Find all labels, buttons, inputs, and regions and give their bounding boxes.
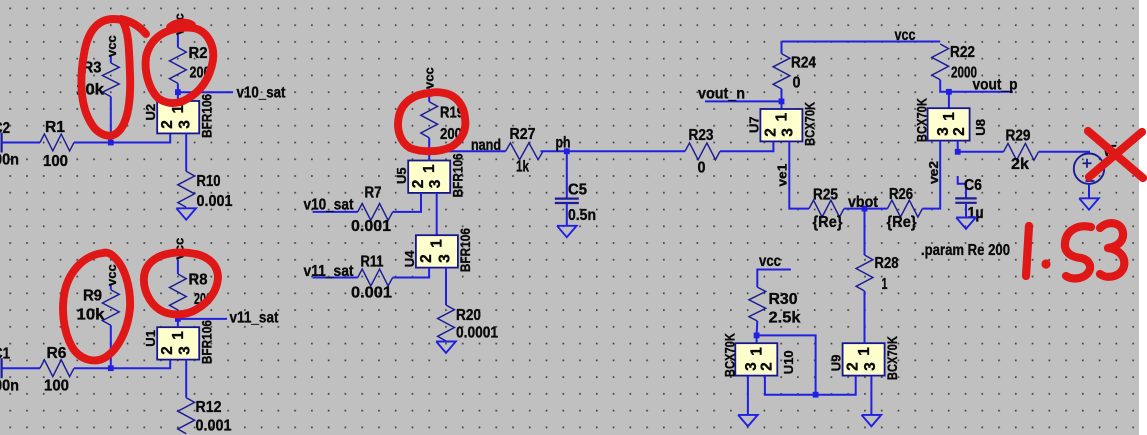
svg-text:ve2: ve2 (926, 161, 941, 184)
svg-text:U9: U9 (829, 355, 844, 372)
wire U1 pin1 (177, 319, 179, 328)
red circle annotation around R19 (398, 92, 465, 151)
svg-text:1: 1 (941, 112, 958, 121)
svg-text:R24: R24 (791, 55, 816, 72)
wire R29 to V5 (1039, 152, 1090, 154)
svg-text:U4: U4 (402, 250, 417, 267)
svg-text:100n: 100n (0, 152, 19, 169)
red handwritten digit 5 (1065, 226, 1091, 278)
resistor R26 (865, 186, 923, 231)
wire U5 pin1 (428, 151, 430, 160)
svg-text:C1: C1 (0, 346, 10, 363)
svg-text:R10: R10 (197, 173, 221, 190)
svg-text:BCX70K: BCX70K (885, 336, 900, 380)
svg-text:U5: U5 (394, 167, 409, 184)
svg-text:R30: R30 (769, 291, 798, 308)
resistor R9 with vcc (77, 285, 120, 369)
svg-text:1k: 1k (516, 159, 529, 176)
wire C2 to R1 (2, 142, 40, 144)
op-amp U4 (BFR106) (402, 228, 473, 272)
capacitor C6 (955, 176, 983, 222)
svg-text:R9: R9 (83, 288, 102, 305)
node v11_sat junction (175, 316, 181, 322)
svg-text:ph: ph (556, 135, 571, 152)
svg-text:0.001: 0.001 (197, 193, 233, 210)
ground below U10 (738, 415, 758, 426)
svg-text:vcc: vcc (895, 27, 916, 44)
svg-text:R2: R2 (189, 45, 208, 62)
svg-text:R22: R22 (950, 44, 975, 61)
svg-text:3: 3 (436, 254, 453, 263)
red handwritten digit 3 (1100, 223, 1124, 277)
wire and net label v10_sat (178, 85, 286, 102)
svg-text:BFR106: BFR106 (199, 93, 214, 137)
svg-text:R1: R1 (45, 119, 65, 136)
wire and net label v10_sat to R7 (304, 197, 358, 214)
svg-text:0.001: 0.001 (196, 418, 232, 435)
node junction vout_n at U7 pin1 (779, 99, 785, 105)
svg-text:vcc: vcc (759, 253, 781, 270)
op-amp U1 (BFR106 buffer) (143, 320, 214, 364)
wire and net label v11_sat (178, 310, 279, 327)
svg-text:1: 1 (773, 113, 790, 122)
svg-text:3: 3 (427, 179, 444, 188)
red circle annotation around R8 (144, 253, 218, 315)
resistor R12 (178, 360, 232, 435)
wire U7 pin3 down ve1 (789, 142, 809, 209)
op-amp U2 (BFR106 buffer) (143, 93, 214, 137)
svg-text:.param Re 200: .param Re 200 (921, 242, 1010, 259)
svg-text:100n: 100n (0, 378, 19, 395)
resistor R10 (178, 133, 233, 210)
resistor R27 (506, 126, 544, 176)
svg-text:ve1: ve1 (774, 164, 789, 187)
node vbot junction with label (848, 194, 878, 212)
svg-text:C2: C2 (0, 120, 10, 137)
wire R1 to U2 pin2 (74, 133, 170, 142)
svg-text:1µ: 1µ (968, 205, 984, 222)
svg-text:1: 1 (856, 347, 873, 356)
svg-text:3: 3 (780, 128, 797, 137)
wire and net label vout_p (949, 77, 1018, 94)
wire V5 to ground (1088, 184, 1090, 198)
svg-text:R20: R20 (456, 307, 481, 324)
resistor R23 (685, 127, 720, 177)
wire C1 to R6 (2, 367, 40, 369)
red handwritten dot (1041, 259, 1050, 268)
wire R7 to U5 pin2 (393, 193, 421, 212)
svg-text:3: 3 (177, 120, 194, 129)
svg-text:U2: U2 (143, 104, 158, 121)
node v10_sat junction (175, 89, 181, 95)
wire U10 pin1 stub (756, 335, 758, 343)
svg-text:2: 2 (845, 362, 862, 371)
svg-text:3: 3 (935, 127, 952, 136)
wire R6 to U1 pin2 (74, 360, 170, 368)
svg-text:R12: R12 (196, 399, 222, 416)
svg-text:R6: R6 (47, 345, 67, 362)
svg-text:2: 2 (159, 346, 176, 355)
resistor R28 (856, 209, 899, 344)
svg-text:2: 2 (951, 127, 968, 136)
capacitor C2 (partially cut at left edge) (0, 120, 19, 169)
svg-text:100: 100 (43, 153, 68, 170)
svg-text:2: 2 (762, 128, 779, 137)
ground below C5 (557, 226, 577, 237)
resistor R2 with vcc (170, 35, 211, 93)
ground below V5 (1079, 198, 1099, 209)
svg-text:3: 3 (862, 362, 879, 371)
resistor R19 with vcc (421, 89, 465, 152)
svg-text:0.0001: 0.0001 (456, 325, 498, 342)
resistor R30 (749, 270, 801, 336)
capacitor C5 (555, 151, 596, 226)
svg-text:R27: R27 (510, 126, 536, 143)
svg-text:0: 0 (698, 160, 706, 177)
svg-text:0.5n: 0.5n (568, 207, 596, 224)
svg-text:{Re}: {Re} (813, 214, 843, 231)
svg-text:vout_n: vout_n (698, 85, 745, 102)
op-amp U5 (BFR106) (394, 153, 465, 197)
svg-text:2: 2 (410, 180, 427, 189)
wire and net label v11_sat to R11 (304, 263, 358, 280)
node junction at U10 pin1 (754, 333, 760, 339)
svg-text:0.001: 0.001 (351, 218, 391, 235)
wire U5 pin3 to U4 pin1 (436, 193, 438, 235)
svg-text:2: 2 (159, 120, 176, 129)
svg-text:R23: R23 (689, 127, 714, 144)
svg-text:0.001: 0.001 (351, 285, 392, 302)
svg-text:U10: U10 (781, 350, 796, 374)
wire U2 pin1 (177, 92, 179, 101)
svg-text:v11_sat: v11_sat (230, 310, 279, 327)
wire U7 pin1 (781, 101, 783, 109)
svg-text:vcc: vcc (422, 67, 437, 89)
svg-text:2: 2 (418, 254, 435, 263)
svg-text:BCX70K: BCX70K (722, 333, 737, 377)
ground below R10 (176, 208, 196, 219)
wire U9 pin3 to ground (870, 376, 872, 415)
red circle annotation around R9 (63, 253, 130, 361)
op-amp U10 (BCX70K mirrored) (722, 333, 796, 377)
svg-text:2k: 2k (1011, 156, 1029, 173)
wire R23 to U7 pin2 (720, 142, 773, 152)
svg-text:C6: C6 (964, 177, 982, 194)
svg-text:1: 1 (429, 239, 446, 248)
svg-text:R7: R7 (365, 185, 382, 202)
svg-text:{Re}: {Re} (887, 214, 917, 231)
op-amp U8 (BCX70K mirrored) (915, 98, 989, 142)
red circle annotation around R2 (146, 28, 214, 103)
svg-text:R26: R26 (889, 186, 913, 203)
wire R25 to vbot (844, 208, 865, 210)
node ph junction with label (556, 135, 571, 155)
svg-text:vcc: vcc (104, 35, 119, 57)
wire nand net with label (429, 137, 505, 154)
svg-text:BFR106: BFR106 (450, 153, 465, 197)
svg-text:2: 2 (758, 362, 775, 371)
svg-text:1: 1 (421, 164, 438, 173)
resistor R29 (1004, 128, 1039, 174)
red handwritten digit 1 (1026, 226, 1029, 276)
op-amp U7 (BCX70K) (746, 102, 817, 146)
svg-text:BCX70K: BCX70K (915, 98, 930, 142)
wire R27 to ph node (541, 150, 567, 152)
red circle annotation around R3 (81, 19, 130, 136)
svg-text:2.5k: 2.5k (769, 310, 801, 327)
wire R11 to U4 pin2 (393, 268, 429, 278)
svg-text:R28: R28 (875, 255, 899, 272)
node nand junction at U5 pin1 (426, 148, 432, 154)
op-amp U9 (BCX70K) (829, 336, 900, 380)
svg-text:1: 1 (749, 347, 766, 356)
node junction R1/R3 (108, 140, 114, 146)
capacitor C1 (partially cut at left edge) (0, 346, 19, 395)
svg-text:3: 3 (177, 346, 194, 355)
svg-text:U7: U7 (746, 116, 761, 133)
svg-text:BFR106: BFR106 (199, 320, 214, 364)
node junction vout_p at U8 pin1 (946, 89, 952, 95)
svg-text:vcc: vcc (104, 264, 119, 286)
svg-text:1: 1 (882, 276, 888, 293)
wire U10 pin1 to U9 pin2 net (757, 335, 816, 394)
resistor R11 (351, 254, 393, 302)
ground below C6 (956, 218, 976, 229)
resistor R6 (40, 345, 74, 395)
wire U10 pin3 to ground (747, 376, 749, 415)
node junction bottom (813, 392, 819, 398)
svg-text:R25: R25 (813, 187, 838, 204)
svg-text:vout_p: vout_p (973, 77, 1018, 94)
node junction at U8 pin2 corner (955, 149, 961, 155)
svg-text:1: 1 (170, 331, 187, 340)
resistor R24 (773, 42, 816, 101)
svg-text:BFR106: BFR106 (458, 228, 473, 272)
svg-text:R29: R29 (1006, 128, 1031, 145)
resistor R22 (932, 44, 977, 92)
red circle R2 start overlap stroke (170, 23, 192, 27)
svg-text:R8: R8 (189, 272, 208, 289)
svg-text:10k: 10k (77, 307, 105, 324)
svg-text:0: 0 (793, 75, 801, 92)
wire vcc stub with label at R30 (756, 253, 791, 270)
wire and net label vout_n (698, 85, 782, 102)
resistor R1 (40, 119, 74, 170)
wire vcc rail with label (782, 27, 941, 44)
wire R26 to U8 pin3 ve2 (922, 141, 940, 209)
svg-text:R11: R11 (361, 254, 384, 271)
wire ph to R23 (567, 150, 685, 152)
svg-text:v10_sat: v10_sat (237, 85, 286, 102)
wire U8 pin2 to R29 (958, 141, 1004, 152)
node junction R6/R9 (108, 365, 114, 371)
resistor R3 with vcc (76, 56, 119, 143)
svg-text:100: 100 (44, 378, 69, 395)
voltage source V5 (1074, 143, 1117, 184)
svg-text:C5: C5 (568, 182, 587, 199)
ground below U9 (862, 415, 882, 426)
wire U8 pin1 (948, 92, 950, 109)
svg-text:v10_sat: v10_sat (304, 197, 354, 214)
svg-text:U1: U1 (143, 330, 158, 347)
svg-text:v11_sat: v11_sat (304, 263, 354, 280)
svg-text:BCX70K: BCX70K (803, 102, 818, 146)
svg-text:U8: U8 (973, 119, 988, 136)
resistor R8 with vcc (170, 260, 213, 319)
resistor R7 (351, 185, 393, 236)
red tail stroke of R3 circle (121, 19, 146, 34)
red X annotation over V5 (1088, 131, 1143, 178)
wire U10 pin2 to junction to U9 pin2 (765, 376, 856, 395)
svg-text:3: 3 (743, 362, 760, 371)
svg-text:nand: nand (471, 137, 501, 154)
resistor R20 (438, 268, 499, 342)
ground below R20 (436, 342, 456, 353)
resistor R25 (809, 187, 844, 232)
